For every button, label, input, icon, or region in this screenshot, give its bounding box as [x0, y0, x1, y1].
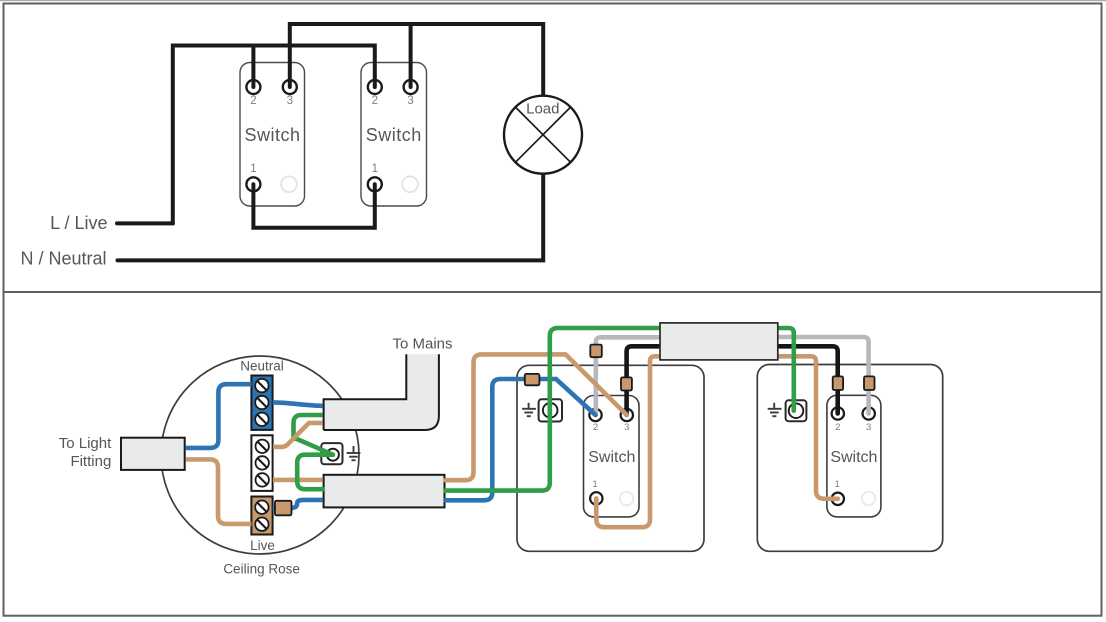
- connector sleeve on blue: [525, 374, 540, 385]
- wire blue neutral to mains: [273, 402, 323, 405]
- page top edge line: [0, 0, 1106, 1]
- switch 2 plate: [827, 395, 881, 517]
- neutral block: [251, 376, 272, 430]
- cable To Mains: [324, 354, 439, 430]
- svg-text:To Mains: To Mains: [392, 335, 452, 352]
- svg-text:Switch: Switch: [366, 125, 422, 145]
- svg-text:2: 2: [835, 422, 840, 433]
- wire SW-A1 to SW-B1: [253, 184, 374, 228]
- terminal s1-1: [590, 492, 602, 504]
- switch SW-B box: [361, 63, 427, 207]
- terminal s2-2: [832, 407, 844, 419]
- wire black junction to s1-3: [627, 346, 700, 415]
- terminal SW-B 3: [404, 80, 418, 94]
- ghost terminal SW-B: [402, 176, 418, 192]
- wire brown loop block to switch cable: [273, 478, 323, 483]
- live block: [251, 497, 272, 535]
- connector sleeve rose blue: [275, 501, 292, 516]
- lamp Load: [504, 96, 582, 174]
- ghost terminal switch1: [620, 492, 633, 505]
- svg-text:Ceiling Rose: Ceiling Rose: [223, 561, 300, 576]
- wire blue light fitting to neutral: [186, 384, 252, 448]
- terminal s1-2: [589, 409, 601, 421]
- panel bottom border: [4, 292, 1102, 616]
- terminal SW-B 2: [368, 80, 382, 94]
- svg-text:Neutral: Neutral: [240, 359, 284, 374]
- svg-text:3: 3: [287, 95, 293, 107]
- terminal s1-3: [621, 409, 633, 421]
- cable To Light Fitting: [121, 438, 185, 470]
- svg-text:1: 1: [250, 163, 256, 175]
- ghost terminal switch2: [862, 492, 875, 505]
- earth symbol box2: [768, 403, 782, 416]
- earth terminal box2: [786, 400, 807, 421]
- svg-text:To Light: To Light: [59, 435, 112, 452]
- wire green earth to switch cable: [297, 455, 333, 490]
- svg-text:1: 1: [835, 479, 840, 490]
- switch back box 1: [517, 365, 704, 551]
- terminal SW-A 3: [283, 80, 297, 94]
- wire gray junction to s2-3: [740, 337, 869, 414]
- switch back box 2: [757, 365, 942, 552]
- svg-text:Fitting: Fitting: [70, 453, 111, 470]
- svg-text:2: 2: [250, 95, 256, 107]
- switch 1 plate: [584, 396, 640, 517]
- svg-text:Live: Live: [250, 538, 275, 553]
- panel top border: [4, 4, 1102, 293]
- svg-text:Load: Load: [526, 101, 559, 118]
- wire green mains B diagonal to earth: [294, 438, 333, 455]
- junction box: [660, 323, 778, 360]
- connector sleeve on black s2: [833, 376, 843, 390]
- terminal SW-A 2: [246, 80, 260, 94]
- svg-text:3: 3: [624, 422, 629, 433]
- svg-text:3: 3: [866, 422, 871, 433]
- svg-text:1: 1: [372, 163, 378, 175]
- ghost terminal SW-A: [281, 176, 297, 192]
- svg-text:1: 1: [592, 479, 597, 490]
- terminal s2-3: [863, 407, 875, 419]
- loop block: [251, 435, 272, 491]
- wire gray junction to s1-2: [596, 337, 700, 415]
- terminal s2-1: [832, 493, 844, 505]
- wires: [186, 328, 869, 527]
- svg-text:N / Neutral: N / Neutral: [20, 248, 106, 268]
- connector sleeve on gray s2: [864, 376, 875, 390]
- wire blue switch cable to s1-2: [446, 379, 596, 500]
- svg-text:L / Live: L / Live: [50, 213, 107, 233]
- wire brown mains to loop block: [273, 423, 323, 447]
- svg-text:2: 2: [372, 95, 378, 107]
- svg-text:3: 3: [407, 95, 413, 107]
- terminal SW-A 1: [246, 177, 260, 191]
- cable to switches: [324, 475, 445, 508]
- wire green switch cable through earths to box2: [446, 328, 794, 491]
- wire brown junction to s2-1: [750, 356, 838, 499]
- wire brown switch cable to s1-3: [446, 354, 627, 480]
- earth terminal rose: [321, 443, 342, 464]
- earth symbol box1: [522, 403, 536, 416]
- terminal SW-B 1: [368, 177, 382, 191]
- wire L rail to SW-B2: [173, 46, 375, 224]
- svg-text:Switch: Switch: [244, 125, 300, 145]
- connector sleeve on black s1: [621, 377, 632, 390]
- wire black junction to s2-2: [740, 346, 838, 413]
- connector sleeve on gray s1: [590, 345, 602, 358]
- svg-text:2: 2: [593, 422, 598, 433]
- ceiling rose circle: [161, 356, 359, 554]
- wire SW-B3 riser: [409, 24, 413, 87]
- wire L / Live stub: [117, 221, 173, 225]
- switch SW-A box: [240, 63, 305, 207]
- svg-text:Switch: Switch: [830, 449, 877, 466]
- wire N / Neutral to Load: [118, 172, 544, 260]
- wire SW-A3 to top to Load: [290, 24, 543, 97]
- earth symbol rose: [347, 446, 361, 460]
- earth terminal box1: [539, 399, 562, 421]
- wire blue live to switch cable: [273, 500, 323, 508]
- wire SW-A2 riser: [251, 46, 255, 88]
- wire brown junction to s1-1: [596, 356, 700, 527]
- wire brown light fitting to live block: [186, 459, 252, 524]
- svg-text:Switch: Switch: [588, 449, 635, 466]
- wire green mains A: [294, 415, 323, 441]
